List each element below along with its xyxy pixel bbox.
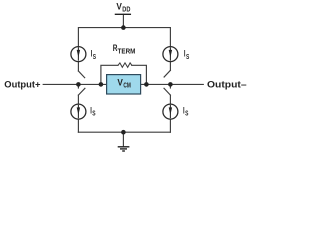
svg-text:Output–: Output–	[207, 79, 247, 90]
current source I_S bottom-left	[71, 104, 86, 119]
wire bottom rail	[78, 131, 170, 133]
ground	[118, 147, 130, 151]
node junction dot RTERM right	[144, 82, 149, 87]
node junction dot ground	[121, 130, 126, 135]
svg-text:S: S	[186, 54, 190, 61]
node junction dot VDD	[121, 25, 126, 30]
wire right lower: switch to source	[169, 95, 171, 104]
wire right lower: source to bottom rail	[169, 119, 171, 132]
svg-text:DD: DD	[122, 6, 130, 13]
svg-text:S: S	[92, 111, 96, 118]
wire node stub below Output+ dot	[77, 84, 79, 88]
wire Output+ line	[43, 83, 106, 85]
switch S1 blade (top-left)	[78, 71, 84, 78]
wire ground lead	[122, 132, 124, 146]
wire left lower: switch to source	[77, 95, 79, 104]
resistor RTERM loop wires	[101, 65, 118, 84]
voltage source V_CM	[107, 75, 141, 94]
wire node stub below Output- dot	[169, 84, 171, 88]
svg-text:S: S	[185, 111, 189, 118]
current source I_S top-right	[163, 47, 178, 62]
power symbol VDD bar	[115, 13, 130, 15]
wire VDD lead	[122, 14, 124, 27]
switch S3 blade (top-right)	[164, 70, 170, 77]
wire right upper: source to switch	[169, 62, 171, 71]
wire left upper: source to switch	[77, 62, 79, 71]
wire top rail	[78, 28, 170, 47]
svg-text:S: S	[93, 54, 97, 61]
resistor RTERM zigzag	[118, 63, 132, 67]
svg-text:CM: CM	[123, 82, 131, 89]
switch S2 blade (bottom-left)	[78, 88, 85, 95]
current source I_S bottom-right	[163, 104, 178, 119]
node junction dot Output-	[168, 82, 173, 87]
svg-text:Output+: Output+	[4, 79, 41, 90]
node junction dot RTERM left	[99, 82, 104, 87]
svg-text:TERM: TERM	[118, 48, 136, 55]
wire Output- line	[141, 83, 203, 85]
current source I_S top-left	[71, 47, 86, 62]
switch S4 blade (bottom-right)	[164, 88, 170, 95]
wire left lower: source to bottom rail	[77, 119, 79, 132]
node junction dot Output+	[76, 82, 81, 87]
